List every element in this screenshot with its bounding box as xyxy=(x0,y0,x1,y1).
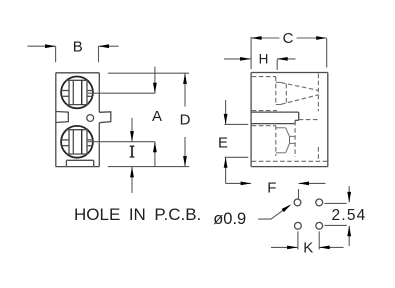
upper LED hidden outline (dashed) xyxy=(252,77,319,105)
dimension D xyxy=(180,73,191,166)
upper lead hidden line xyxy=(317,74,319,112)
dimension A xyxy=(152,67,162,167)
dimension B xyxy=(28,39,119,63)
dimension H xyxy=(224,51,296,70)
dimension F xyxy=(226,179,326,198)
side view mounting tab xyxy=(251,112,299,124)
small center hole xyxy=(87,115,94,122)
svg-text:E: E xyxy=(218,134,228,151)
svg-text:D: D xyxy=(180,112,191,129)
svg-text:B: B xyxy=(73,39,83,56)
lower LED hidden outline (dashed) xyxy=(252,126,295,156)
hidden line above tab xyxy=(252,110,277,112)
dimension D extension lines xyxy=(108,72,189,74)
side view body xyxy=(251,73,328,167)
svg-text:K: K xyxy=(303,240,313,257)
hidden line right of tab xyxy=(299,119,319,121)
dimension C xyxy=(251,30,327,69)
svg-text:ø0.9: ø0.9 xyxy=(213,210,246,228)
dimension K xyxy=(271,231,344,256)
right tab (front view) xyxy=(99,112,111,123)
svg-text:C: C xyxy=(283,30,294,47)
LED 2 (lower) xyxy=(61,126,93,158)
dimension 2.54 xyxy=(325,186,367,246)
hidden base line (dashed) xyxy=(252,160,328,162)
LED 1 (upper) xyxy=(61,77,93,109)
front view bottom step / feet xyxy=(66,160,93,166)
leader line from LED2 center xyxy=(88,141,155,143)
lower lead hidden line xyxy=(294,121,296,157)
dimension I xyxy=(130,118,135,193)
dimension E xyxy=(218,100,248,183)
svg-text:H: H xyxy=(259,51,269,66)
PCB holes xyxy=(294,199,323,229)
leader line from LED1 center xyxy=(88,92,155,94)
svg-text:A: A xyxy=(152,108,162,125)
front view body outline xyxy=(56,73,100,167)
svg-text:2.54: 2.54 xyxy=(332,207,367,224)
hole diameter label xyxy=(213,203,292,228)
left notch xyxy=(56,112,69,123)
svg-text:HOLE IN P.C.B.: HOLE IN P.C.B. xyxy=(74,205,201,224)
svg-text:F: F xyxy=(267,179,276,196)
lower right lead hidden stub xyxy=(317,147,319,161)
